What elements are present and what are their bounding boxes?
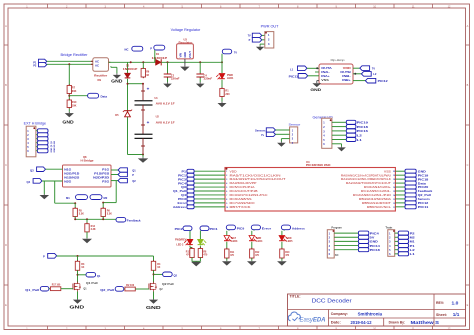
svg-text:8: 8 [226, 199, 227, 201]
svg-text:D9: D9 [98, 78, 102, 82]
svg-text:L2: L2 [410, 248, 416, 252]
svg-text:6: 6 [226, 191, 227, 193]
svg-text:RC1/AN5/C12IN1-: RC1/AN5/C12IN1- [361, 189, 391, 193]
svg-text:RA2/AN2/T0CKI/INT/C1OUT: RA2/AN2/T0CKI/INT/C1OUT [346, 181, 392, 185]
svg-text:Q1_Pull: Q1_Pull [25, 288, 39, 292]
svg-text:RB5/AN11/RX/DT: RB5/AN11/RX/DT [362, 201, 392, 205]
svg-text:18: 18 [393, 179, 395, 181]
svg-text:LED1: LED1 [227, 77, 234, 80]
svg-text:RC3/AN7/C12IN3-/P1C: RC3/AN7/C12IN3-/P1C [230, 193, 268, 197]
svg-text:Q1: Q1 [97, 274, 101, 278]
svg-text:PIC19: PIC19 [418, 173, 429, 177]
svg-text:4: 4 [226, 182, 227, 185]
svg-text:PIC1: PIC1 [210, 227, 219, 231]
svg-text:PWR OUT: PWR OUT [261, 25, 279, 29]
svg-text:R12: R12 [255, 252, 260, 254]
svg-text:1.0: 1.0 [452, 300, 459, 305]
svg-text:RC0/AN4/C2IN+: RC0/AN4/C2IN+ [364, 185, 392, 189]
svg-text:Q1_Pull: Q1_Pull [173, 189, 186, 193]
svg-text:INB-: INB- [342, 74, 351, 78]
svg-text:RC5/CCP1/P1A: RC5/CCP1/P1A [230, 185, 255, 189]
svg-text:10K: 10K [72, 104, 77, 107]
svg-text:LED 2: LED 2 [176, 244, 184, 247]
svg-text:N2D/P2D: N2D/P2D [93, 176, 109, 179]
svg-text:Feedback: Feedback [418, 189, 433, 193]
svg-text:AVX 6.1V 1F: AVX 6.1V 1F [156, 103, 176, 106]
svg-text:2: 2 [226, 175, 227, 177]
svg-text:GND: GND [370, 240, 378, 244]
svg-text:P: P [43, 255, 45, 259]
svg-text:D: D [467, 244, 469, 247]
svg-text:Sensors: Sensors [255, 128, 266, 132]
svg-text:PIC4: PIC4 [370, 231, 380, 235]
svg-text:Q2_Pull: Q2_Pull [418, 193, 431, 197]
svg-text:R10: R10 [285, 252, 290, 254]
svg-text:N2G/P1D: N2G/P1D [64, 172, 79, 175]
svg-text:GND: GND [69, 304, 85, 309]
svg-text:Feedback: Feedback [127, 219, 141, 223]
svg-text:M1: M1 [66, 196, 70, 200]
svg-text:RA4/AN3/T1G/OSC2/CLKOUT: RA4/AN3/T1G/OSC2/CLKOUT [230, 177, 287, 181]
svg-text:P: P [132, 173, 134, 177]
svg-text:PIC3: PIC3 [178, 177, 187, 181]
svg-text:15: 15 [393, 191, 395, 193]
svg-text:RB6/SCK/SCL: RB6/SCK/SCL [367, 205, 392, 209]
svg-text:Voltage Regulator: Voltage Regulator [171, 28, 202, 32]
svg-text:Sensor: Sensor [289, 123, 301, 127]
svg-text:+: + [147, 87, 150, 92]
svg-text:INB+: INB+ [342, 78, 351, 82]
svg-text:Q2 Pull: Q2 Pull [162, 282, 174, 286]
svg-text:LED5: LED5 [286, 240, 293, 243]
svg-text:Address: Address [292, 227, 306, 231]
svg-text:P1G: P1G [102, 168, 109, 171]
svg-text:TITLE:: TITLE: [290, 295, 301, 299]
svg-text:RC4/C2OUT/P1B: RC4/C2OUT/P1B [230, 189, 258, 193]
svg-text:Program: Program [331, 226, 342, 230]
svg-text:EasyEDA: EasyEDA [300, 318, 326, 324]
svg-text:L1: L1 [290, 67, 294, 71]
svg-text:Q4: Q4 [181, 193, 187, 197]
svg-text:PIC20: PIC20 [418, 185, 429, 189]
svg-text:3.3K: 3.3K [91, 228, 96, 231]
svg-text:PIC4: PIC4 [178, 181, 187, 185]
svg-text:NC: NC [125, 48, 129, 52]
svg-text:GND: GND [310, 87, 321, 92]
svg-text:N2G: N2G [64, 180, 71, 183]
svg-text:Date:: Date: [331, 321, 341, 325]
svg-text:Q1: Q1 [132, 169, 136, 173]
svg-text:5V: 5V [370, 236, 375, 240]
svg-text:Q1 Pull: Q1 Pull [86, 281, 98, 285]
svg-text:RB4/AN10/SDI/SDA: RB4/AN10/SDI/SDA [359, 197, 391, 201]
svg-text:+: + [147, 120, 150, 125]
svg-text:L1: L1 [410, 252, 416, 256]
svg-text:RC6/AN8/SS: RC6/AN8/SS [230, 197, 252, 201]
svg-text:PIC9: PIC9 [237, 227, 245, 231]
svg-text:RA3/MCLR/VPP: RA3/MCLR/VPP [230, 181, 257, 185]
svg-text:C: C [5, 164, 7, 167]
svg-text:OUTA: OUTA [321, 66, 332, 70]
svg-text:P2G: P2G [102, 180, 109, 183]
svg-text:17: 17 [393, 183, 395, 185]
svg-text:13: 13 [393, 199, 395, 201]
svg-text:33K: 33K [72, 90, 77, 93]
svg-text:Data: Data [418, 181, 427, 185]
svg-text:PIC12: PIC12 [418, 201, 429, 205]
svg-text:Q3: Q3 [30, 168, 34, 172]
svg-text:PIC2: PIC2 [175, 227, 184, 231]
svg-text:VSS: VSS [384, 169, 391, 173]
svg-text:PIC11: PIC11 [289, 75, 299, 79]
svg-text:220nF: 220nF [204, 78, 213, 81]
svg-text:7V: 7V [372, 67, 375, 71]
svg-text:GND Q1 Q2: GND Q1 Q2 [51, 140, 53, 152]
svg-text:Error: Error [262, 227, 271, 231]
svg-text:AC: AC [95, 63, 99, 67]
svg-text:19: 19 [393, 175, 395, 177]
svg-text:EXT H Bridge: EXT H Bridge [24, 122, 47, 126]
svg-text:GND: GND [62, 119, 73, 124]
svg-text:220nF: 220nF [171, 78, 180, 81]
svg-text:GND: GND [111, 79, 122, 84]
svg-text:OUTB: OUTB [340, 70, 351, 74]
svg-text:Smithtronia: Smithtronia [358, 311, 383, 316]
svg-text:7v: 7v [261, 133, 264, 137]
svg-text:Rectifier: Rectifier [94, 73, 107, 77]
svg-text:LED3: LED3 [231, 240, 238, 243]
svg-text:VIN: VIN [179, 53, 183, 57]
svg-text:1/1: 1/1 [453, 312, 460, 317]
svg-text:Q4: Q4 [27, 180, 31, 184]
svg-text:Drawn By:: Drawn By: [389, 321, 406, 325]
svg-text:RB7/TX/CK: RB7/TX/CK [230, 205, 251, 209]
svg-text:INA+: INA+ [321, 74, 330, 78]
svg-text:RA0/ANG/C1IN+/ICSPDAT/ULPWU: RA0/ANG/C1IN+/ICSPDAT/ULPWU [341, 173, 391, 177]
svg-text:Address: Address [173, 205, 187, 209]
svg-text:Q2: Q2 [132, 179, 136, 183]
svg-text:14: 14 [393, 194, 395, 197]
svg-text:Data: Data [101, 94, 108, 98]
svg-text:3.3K: 3.3K [79, 212, 84, 215]
svg-text:10: 10 [226, 207, 228, 209]
svg-text:P2: P2 [410, 231, 416, 235]
svg-text:N1G: N1G [64, 168, 71, 171]
svg-text:PIC12: PIC12 [378, 79, 389, 83]
svg-text:GND: GND [418, 169, 426, 173]
svg-text:3.3K: 3.3K [107, 212, 112, 215]
svg-text:L2: L2 [373, 72, 377, 76]
svg-text:Company:: Company: [331, 312, 348, 316]
svg-text:PIC3: PIC3 [178, 197, 187, 201]
svg-text:200: 200 [225, 93, 230, 96]
svg-text:5: 5 [226, 187, 227, 189]
svg-text:1K: 1K [157, 266, 160, 269]
svg-text:Q2_Pull: Q2_Pull [100, 288, 114, 292]
svg-text:11: 11 [393, 207, 395, 209]
svg-text:M2: M2 [410, 236, 416, 240]
svg-text:RC2/AN6/C12IN1-/P1D: RC2/AN6/C12IN1-/P1D [353, 193, 391, 197]
svg-text:1N4001P: 1N4001P [123, 68, 138, 71]
svg-text:P2: P2 [33, 64, 37, 68]
svg-text:R13: R13 [186, 252, 191, 254]
svg-text:PIC1: PIC1 [178, 173, 187, 177]
svg-text:M2: M2 [104, 196, 108, 200]
svg-text:1N4001P: 1N4001P [152, 57, 168, 60]
svg-text:FWD/REV: FWD/REV [175, 239, 187, 242]
svg-text:Matthew S: Matthew S [411, 320, 440, 325]
svg-text:PIC16F690 I/SO: PIC16F690 I/SO [306, 163, 331, 167]
svg-text:P: P [150, 46, 152, 50]
svg-text:P1: P1 [182, 169, 187, 173]
svg-text:7V: 7V [234, 50, 237, 54]
svg-text:7: 7 [226, 195, 227, 197]
svg-text:VOUT: VOUT [188, 51, 192, 59]
svg-text:R11: R11 [230, 252, 235, 254]
svg-text:M1: M1 [410, 240, 416, 244]
svg-text:1K: 1K [81, 266, 84, 269]
svg-text:Q2: Q2 [174, 273, 178, 277]
svg-text:P1S/P2S: P1S/P2S [94, 172, 110, 175]
svg-text:12: 12 [393, 203, 395, 205]
svg-text:R2 100: R2 100 [126, 285, 135, 287]
svg-text:VDD: VDD [343, 66, 351, 70]
svg-text:P1: P1 [410, 244, 416, 248]
svg-text:3: 3 [226, 179, 227, 181]
svg-text:RC7/AN9/SDO: RC7/AN9/SDO [230, 201, 255, 205]
svg-text:PIC18: PIC18 [370, 248, 381, 252]
svg-text:AVX 6.1V 1F: AVX 6.1V 1F [156, 122, 176, 125]
svg-text:PIC18: PIC18 [418, 177, 429, 181]
svg-text:7V: 7V [248, 35, 251, 38]
svg-text:LED4: LED4 [256, 240, 263, 243]
svg-text:PIC14: PIC14 [370, 244, 381, 248]
svg-text:NC: NC [335, 254, 339, 257]
svg-text:Sheet:: Sheet: [436, 313, 447, 317]
svg-text:GND: GND [146, 305, 162, 310]
svg-text:16: 16 [393, 187, 395, 189]
svg-text:REV:: REV: [436, 301, 444, 305]
svg-text:R17 100: R17 100 [52, 285, 61, 287]
svg-text:RA1/AN1/C12IN0-/VREF/ICSPCLK: RA1/AN1/C12IN0-/VREF/ICSPCLK [341, 177, 391, 181]
svg-text:1: 1 [226, 171, 227, 173]
svg-text:N1S/N2S: N1S/N2S [64, 176, 80, 179]
svg-text:9: 9 [226, 203, 227, 205]
svg-text:VSS: VSS [321, 78, 329, 82]
svg-text:L1: L1 [357, 138, 363, 142]
svg-text:GND: GND [183, 52, 187, 58]
svg-text:D: D [5, 244, 7, 247]
svg-text:Bridge Rectifier: Bridge Rectifier [61, 53, 89, 57]
svg-text:VDD: VDD [230, 169, 237, 173]
svg-text:2019-04-12: 2019-04-12 [351, 320, 373, 325]
svg-text:H Bridge: H Bridge [81, 158, 95, 162]
svg-text:Q3: Q3 [181, 185, 187, 189]
svg-text:RA5/T1CKI/OSC1/CLKIN: RA5/T1CKI/OSC1/CLKIN [230, 173, 281, 177]
svg-text:DCC Decoder: DCC Decoder [312, 299, 352, 305]
svg-text:20: 20 [393, 171, 395, 173]
svg-text:INA-: INA- [321, 70, 330, 74]
svg-text:Sensors: Sensors [418, 197, 431, 201]
svg-text:PIC11: PIC11 [418, 205, 429, 209]
svg-text:Train: Train [385, 226, 392, 230]
svg-text:C: C [467, 164, 469, 167]
svg-text:GND M1 M2: GND M1 M2 [54, 140, 56, 152]
svg-text:Error: Error [178, 201, 187, 205]
svg-text:Op-Amp: Op-Amp [331, 58, 345, 62]
